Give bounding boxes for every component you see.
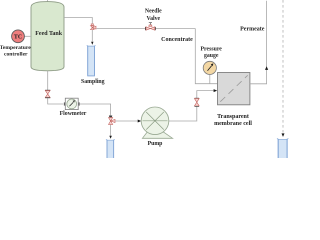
wire riser valve to cell feed	[197, 91, 214, 99]
sampling vessel	[87, 45, 96, 76]
svg-text:Valve: Valve	[146, 16, 160, 22]
svg-text:Temperature: Temperature	[0, 45, 31, 51]
wire TC to tank	[25, 35, 32, 37]
drain vessel	[106, 139, 115, 158]
svg-text:Feed Tank: Feed Tank	[35, 31, 63, 37]
wire tank to sampling junction	[64, 18, 92, 24]
wire valve to pump	[115, 120, 138, 122]
arrow into permeate vessel	[282, 133, 285, 137]
valve V1 sampling 3-way	[90, 24, 96, 30]
wire permeate	[250, 1, 267, 84]
svg-text:TC: TC	[14, 35, 22, 41]
pump P1	[141, 107, 172, 138]
wire concentrate line	[96, 28, 195, 30]
wire tank top stub	[47, 0, 49, 2]
svg-text:Flowmeter: Flowmeter	[60, 111, 87, 117]
wire drain valve to drain vessel	[110, 125, 112, 136]
svg-text:Sampling: Sampling	[81, 79, 105, 85]
arrow permeate up	[265, 66, 268, 70]
arrow into drain vessel	[109, 136, 112, 139]
feed tank T1	[31, 2, 64, 71]
arrow into sampling vessel	[91, 42, 93, 45]
wire pump outlet to riser	[169, 107, 197, 122]
svg-text:controller: controller	[4, 51, 28, 57]
arrow feed into cell	[214, 89, 218, 92]
wire dashed permeate collection	[282, 0, 284, 133]
svg-text:membrane cell: membrane cell	[214, 121, 252, 127]
valve V3 tank outlet	[45, 90, 50, 98]
wire flowmeter to drain junction	[80, 104, 111, 115]
permeate vessel	[277, 138, 288, 158]
temperature controller TC	[12, 30, 25, 43]
wire valve to flowmeter	[48, 98, 64, 104]
svg-text:Permeate: Permeate	[240, 26, 265, 32]
membrane cell M1	[218, 73, 250, 105]
valve V4 drain 3-way	[109, 116, 116, 125]
svg-text:Concentrate: Concentrate	[161, 37, 193, 43]
arrow into pump	[138, 120, 142, 123]
wire tank bottom to valve	[47, 71, 49, 90]
wire pressure gauge stem	[209, 74, 211, 84]
wire concentrate riser	[195, 29, 217, 84]
wire sampling valve to sampling vessel	[91, 30, 93, 42]
svg-text:Pump: Pump	[148, 141, 163, 147]
pressure gauge PG1	[203, 61, 216, 74]
svg-text:Transparent: Transparent	[217, 114, 249, 120]
needle valve NV1	[145, 23, 156, 31]
valve V2 riser	[194, 98, 199, 107]
svg-text:Needle: Needle	[145, 9, 162, 15]
flowmeter FM1	[64, 98, 79, 109]
svg-text:gauge: gauge	[204, 53, 219, 59]
svg-text:Pressure: Pressure	[201, 46, 223, 52]
